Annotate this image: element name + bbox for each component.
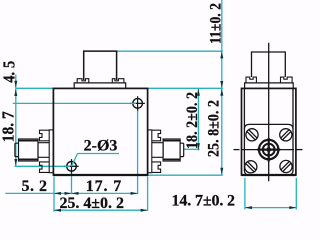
screw BL <box>245 161 257 173</box>
svg-text:25. 8±0. 2: 25. 8±0. 2 <box>206 100 223 157</box>
svg-text:5. 2: 5. 2 <box>21 178 47 195</box>
left connector top clip <box>40 130 50 141</box>
svg-text:18. 7: 18. 7 <box>0 111 18 142</box>
outer body <box>242 88 296 175</box>
left connector neck <box>38 143 49 158</box>
screw TR circle <box>133 99 143 109</box>
right connector pin <box>180 143 184 156</box>
clip left of top connector <box>77 79 89 83</box>
dim line 11/25.8 vertical <box>221 0 223 175</box>
screw BL circle <box>67 162 77 172</box>
18.7 down arrow <box>14 159 17 166</box>
svg-text:17. 7: 17. 7 <box>86 178 122 195</box>
svg-text:14. 7±0. 2: 14. 7±0. 2 <box>172 192 235 209</box>
pocket bottom rounded corners <box>244 170 293 175</box>
right connector bottom clip <box>152 162 161 173</box>
ext body-top to right <box>148 87 223 89</box>
25.4 right arrow <box>141 209 148 212</box>
svg-text:11±0. 2: 11±0. 2 <box>207 3 224 44</box>
screw BR <box>280 160 292 172</box>
left connector: flange plate <box>49 130 53 173</box>
5.2 left arrow <box>54 192 61 195</box>
dim row3 14.7 <box>245 207 296 209</box>
25.8 up arrow <box>220 89 223 96</box>
right connector top clip <box>152 130 161 141</box>
right connector nut <box>163 139 180 161</box>
body bottom edge thick <box>53 174 147 176</box>
screw TR <box>280 129 292 141</box>
25.8 down arrow <box>220 168 223 175</box>
18.7 up arrow <box>14 89 17 96</box>
clip right of top connector <box>112 79 124 83</box>
5.2/17.7 bowtie arrows <box>65 192 72 195</box>
right connector neck <box>152 143 163 158</box>
svg-text:2-Ø3: 2-Ø3 <box>84 138 118 155</box>
inner vertical lines <box>243 88 245 171</box>
18.2 down arrow <box>197 143 200 150</box>
11 down arrow <box>220 81 223 88</box>
svg-text:25. 4±0. 2: 25. 4±0. 2 <box>59 195 124 212</box>
svg-text:18. 2±0. 2: 18. 2±0. 2 <box>184 92 201 149</box>
clip right <box>281 77 293 83</box>
left connector nut <box>19 139 39 161</box>
ext vertical from screw BL <box>71 172 73 195</box>
flange bar <box>245 83 294 88</box>
body <box>53 88 147 175</box>
screw BL cross <box>71 159 73 174</box>
center cross thick <box>268 138 270 162</box>
ext vertical from screw TR <box>137 109 139 195</box>
14.7 left arrow <box>245 206 252 209</box>
left connector bottom clip <box>40 162 50 173</box>
ext body-bottom to right <box>148 174 223 176</box>
svg-text:4. 5: 4. 5 <box>0 61 18 83</box>
4.5 down arrow <box>14 81 17 88</box>
left connector pin <box>15 143 19 156</box>
right connector: flange plate <box>148 130 152 173</box>
11 up arrow <box>220 51 223 58</box>
18.2 up arrow <box>197 89 200 96</box>
ext body left edge down <box>53 177 55 212</box>
screw TR cross <box>137 96 139 111</box>
dim row2 25.4 <box>54 209 148 211</box>
screw TL <box>245 129 292 173</box>
ext side body left down <box>244 178 246 210</box>
17.7 right arrow <box>131 192 138 195</box>
leader 2-phi3 diagonal <box>72 154 78 167</box>
center circles <box>259 140 278 159</box>
cyan centerline overlays on screws <box>65 103 137 166</box>
top connector legs+bar <box>252 52 286 77</box>
centerline screw TR horizontal <box>13 102 144 104</box>
vertical centerline <box>268 43 270 182</box>
ext connector-top to right <box>117 50 223 52</box>
dim line 18.2 vertical <box>197 88 199 150</box>
dim line 4.5/18.7 vertical <box>15 75 17 167</box>
pocket top line with rounded corners <box>244 124 293 129</box>
flange bar <box>74 83 126 88</box>
dim row1 5.2 / 17.7 <box>5 192 137 194</box>
clip left <box>246 77 256 83</box>
horizontal centerline (dashes at ends) <box>234 149 240 151</box>
14.7 right arrow <box>289 206 296 209</box>
extension body-top-left <box>16 87 54 89</box>
side body bottom edge thick <box>242 174 296 176</box>
leader 2-phi3 underline <box>78 153 120 155</box>
top connector box <box>84 51 117 80</box>
ext body right edge down <box>147 177 149 211</box>
centerline screw BL horizontal <box>15 165 78 167</box>
ext side body right down <box>295 178 297 210</box>
25.4 left arrow <box>54 209 61 212</box>
ext connector center right <box>184 148 200 150</box>
